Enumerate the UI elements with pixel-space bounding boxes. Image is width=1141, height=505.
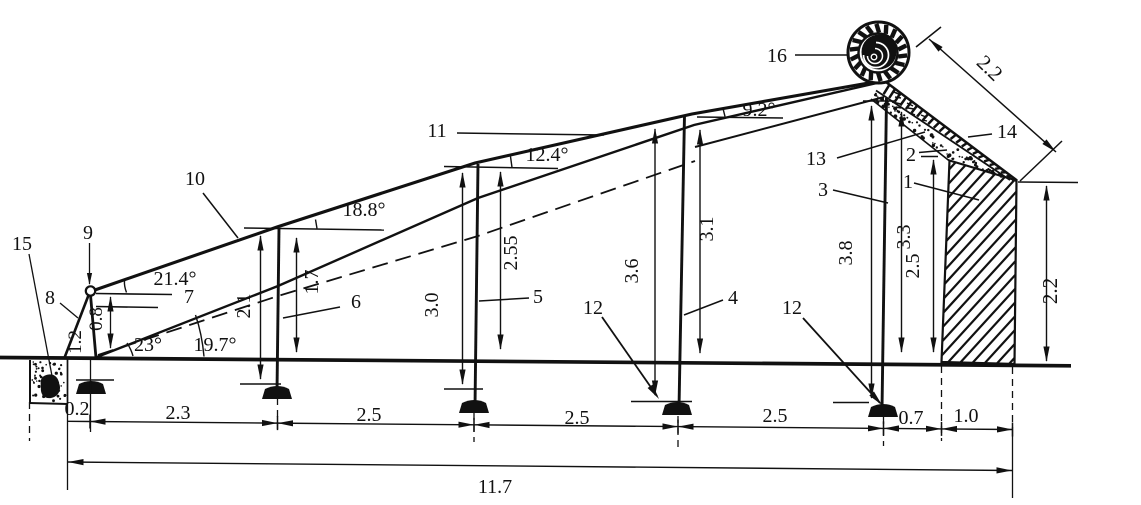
dashed chord (19.7 deg mean line) — [98, 161, 695, 355]
label 14 leader — [968, 134, 992, 137]
roof band mid line — [876, 91, 1010, 181]
footing 12b — [662, 402, 692, 415]
dashed ext wall left — [941, 366, 943, 441]
label 6 leader — [283, 307, 340, 318]
svg-text:12: 12 — [782, 297, 802, 319]
svg-text:3.0: 3.0 — [421, 293, 443, 318]
svg-text:23°: 23° — [134, 334, 162, 356]
joint circle — [86, 286, 95, 295]
ground line — [0, 358, 1071, 366]
upper chord 10 (roof polyline) — [92, 81, 880, 291]
svg-text:16: 16 — [767, 45, 787, 67]
blind roll 16 — [848, 22, 909, 83]
label 16 leader — [795, 54, 847, 56]
label 8 leader — [60, 303, 78, 318]
chain tick — [473, 418, 475, 432]
svg-text:9.2°: 9.2° — [743, 99, 776, 121]
label 1 leader — [914, 183, 979, 200]
angle 23 arc — [127, 343, 133, 356]
svg-text:12.4°: 12.4° — [526, 144, 569, 166]
svg-text:2.5: 2.5 — [902, 254, 924, 279]
roof band lower boundary — [871, 99, 950, 161]
chain tick — [677, 420, 679, 434]
svg-text:15: 15 — [12, 233, 32, 255]
chain tick — [89, 415, 91, 429]
slope dim ext top — [916, 27, 941, 47]
svg-text:3: 3 — [818, 179, 828, 201]
dim 11.7 line — [68, 462, 1012, 471]
svg-text:13: 13 — [806, 148, 826, 170]
svg-text:0.2: 0.2 — [65, 398, 90, 420]
dashed ext f2 — [277, 398, 279, 431]
post 6 (first) — [277, 228, 279, 392]
dashed ext left block — [29, 402, 31, 441]
dashed ext right — [1012, 367, 1014, 434]
svg-text:5: 5 — [533, 286, 543, 308]
front footing — [76, 381, 106, 394]
front post — [91, 295, 97, 358]
chain dim line 2.5 — [474, 425, 678, 427]
dim 1.7 — [296, 238, 298, 352]
svg-text:9: 9 — [83, 222, 93, 244]
svg-text:3.6: 3.6 — [621, 259, 643, 284]
extension line front foot — [90, 360, 92, 432]
footing — [459, 400, 489, 413]
svg-text:0.8: 0.8 — [86, 307, 107, 331]
footing 12a — [262, 386, 292, 399]
tie line lower — [96, 307, 158, 308]
right dim ext top — [1018, 181, 1078, 184]
svg-text:2.55: 2.55 — [500, 236, 522, 271]
roof band top line — [884, 81, 1017, 181]
lower chord (polyline) — [97, 83, 877, 357]
chain dim line 2.5 — [678, 427, 884, 429]
dim 2.5 (wall) tick — [921, 156, 938, 158]
roof band glyph marks — [892, 92, 927, 121]
chain tick — [883, 421, 885, 435]
roof band stipple 13 — [874, 93, 1003, 178]
dim 3.3 — [901, 112, 903, 352]
svg-text:6: 6 — [351, 291, 361, 313]
angle 12.4 arc tick — [511, 157, 513, 168]
angle 9.2 ref line — [697, 117, 783, 118]
svg-text:1: 1 — [903, 171, 913, 193]
angle 21.4 arc — [124, 281, 126, 293]
label 3 leader — [833, 190, 888, 203]
svg-text:2.3: 2.3 — [166, 402, 191, 424]
slope dim 2.2 line — [929, 39, 1056, 152]
svg-text:1.7: 1.7 — [301, 270, 323, 295]
svg-text:11: 11 — [427, 120, 446, 142]
footing 12a top line — [240, 383, 281, 385]
post 5 (second) — [475, 164, 478, 407]
chain dim line 2.5 — [278, 423, 475, 425]
front post 9 upper leader — [89, 243, 91, 284]
roof band hatch 14 — [884, 85, 1017, 181]
footing top line — [444, 388, 483, 390]
svg-text:18.8°: 18.8° — [343, 199, 386, 221]
chain tick — [1012, 423, 1014, 437]
svg-text:11.7: 11.7 — [478, 476, 512, 498]
footing back — [868, 404, 898, 417]
footing 12b top line — [631, 401, 692, 403]
svg-text:2.5: 2.5 — [565, 407, 590, 429]
solid ext right low — [1012, 434, 1014, 498]
right dim 2.2 — [1046, 186, 1048, 361]
post 4 (third) — [679, 115, 685, 408]
svg-text:3.1: 3.1 — [696, 217, 718, 242]
label 15 leader — [29, 254, 52, 376]
dim 3.0 — [462, 173, 464, 384]
chain dim line 0.7 — [884, 427, 942, 430]
dashed ext f5 — [883, 417, 885, 446]
label 4 leader — [684, 300, 723, 315]
svg-text:1.0: 1.0 — [954, 405, 979, 427]
svg-text:2.5: 2.5 — [763, 405, 788, 427]
dashed ext f3 — [473, 413, 475, 442]
svg-text:3.3: 3.3 — [893, 225, 915, 250]
label 2 leader — [919, 150, 947, 153]
svg-text:14: 14 — [997, 121, 1017, 143]
svg-text:3.8: 3.8 — [835, 241, 857, 266]
front footing top line — [76, 379, 114, 381]
svg-text:2: 2 — [906, 144, 916, 166]
label 12 a leader — [602, 317, 657, 396]
svg-text:0.7: 0.7 — [899, 407, 924, 429]
label 10 leader — [203, 193, 238, 238]
svg-text:21.4°: 21.4° — [154, 268, 197, 290]
angle 19.7 arc — [196, 315, 205, 357]
back post cap — [863, 100, 896, 102]
brace third post to back post top — [695, 97, 884, 147]
svg-text:1.2: 1.2 — [65, 330, 86, 354]
svg-text:4: 4 — [728, 287, 738, 309]
slope dim ext bottom — [1020, 141, 1062, 181]
chain tick — [277, 416, 279, 430]
dim 3.1 — [699, 130, 701, 353]
chain dim line 2.3 — [90, 422, 278, 424]
post 3 (back) — [882, 98, 887, 410]
svg-text:19.7°: 19.7° — [194, 334, 237, 356]
label 12 b leader — [803, 318, 880, 403]
tie line 7 / angle ref 21.4 — [96, 294, 172, 295]
chain dim line 0.2 — [68, 420, 91, 422]
dim 3.8 — [871, 106, 873, 398]
dim 2.1 — [260, 236, 262, 379]
angle 9.2 arc tick — [723, 109, 725, 117]
dim 0.8 — [110, 297, 112, 348]
dim 2.55 — [500, 172, 502, 349]
label 11 leader — [457, 133, 604, 135]
angle 18.8 ref line — [244, 228, 384, 230]
svg-text:10: 10 — [185, 168, 205, 190]
dim 3.6 — [654, 129, 656, 395]
angle 12.4 ref line — [444, 167, 558, 169]
label 13 leader — [837, 132, 925, 158]
footing back top line — [833, 402, 869, 404]
dim 2.5 (wall) — [933, 160, 935, 352]
chain tick — [941, 422, 943, 436]
angle 18.8 arc tick — [316, 220, 318, 229]
svg-text:2.1: 2.1 — [233, 294, 255, 319]
back wall outline 1 — [942, 161, 1017, 365]
strut 8 — [64, 294, 89, 359]
svg-text:8: 8 — [45, 287, 55, 309]
chain dim line 1.0 — [942, 428, 1013, 431]
svg-text:2.5: 2.5 — [357, 404, 382, 426]
dashed ext f4 — [677, 416, 679, 450]
svg-text:12: 12 — [583, 297, 603, 319]
extension line left 11.7 — [67, 359, 69, 490]
svg-text:2.2: 2.2 — [1038, 278, 1062, 304]
label 5 leader — [479, 298, 529, 301]
foundation block 15 — [29, 359, 68, 404]
